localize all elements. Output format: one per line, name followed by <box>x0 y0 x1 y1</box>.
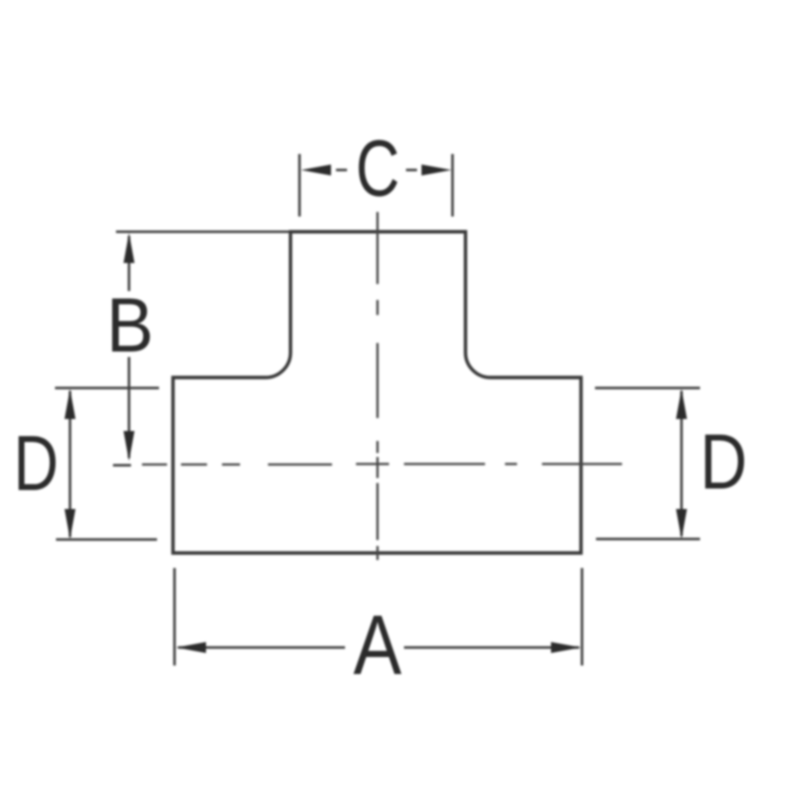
dim B bottom stub <box>113 464 131 467</box>
dim B extension line <box>116 231 290 234</box>
arrow D left top <box>65 389 76 419</box>
dim B line <box>128 236 131 458</box>
arrow C left <box>301 165 331 176</box>
arrow B top <box>124 233 135 263</box>
dim D left line <box>69 391 72 537</box>
arrow B bottom <box>124 431 135 461</box>
arrow A left <box>176 642 206 653</box>
dim D left extension lines <box>55 388 159 540</box>
centerlines <box>113 212 622 560</box>
svg-text:B: B <box>106 282 153 368</box>
dim C extension line left <box>298 154 301 217</box>
vertical centerline <box>376 212 378 560</box>
arrow D right bottom <box>676 509 687 539</box>
dim C extension line right <box>451 154 454 217</box>
tee fitting body outline <box>173 232 581 553</box>
arrow D left bottom <box>65 509 76 539</box>
dim A extension lines <box>175 568 583 666</box>
svg-text:A: A <box>353 598 402 692</box>
svg-text:D: D <box>13 419 58 506</box>
dim D right extension lines <box>595 388 700 539</box>
horizontal centerline <box>113 464 622 465</box>
arrow C right <box>422 165 452 176</box>
arrow D right top <box>676 389 687 419</box>
svg-text:D: D <box>700 419 747 506</box>
svg-text:C: C <box>356 125 400 214</box>
arrow A right <box>551 642 581 653</box>
dim C line stubs <box>336 169 417 172</box>
dim A line <box>178 646 579 649</box>
dim D right line <box>680 391 683 536</box>
